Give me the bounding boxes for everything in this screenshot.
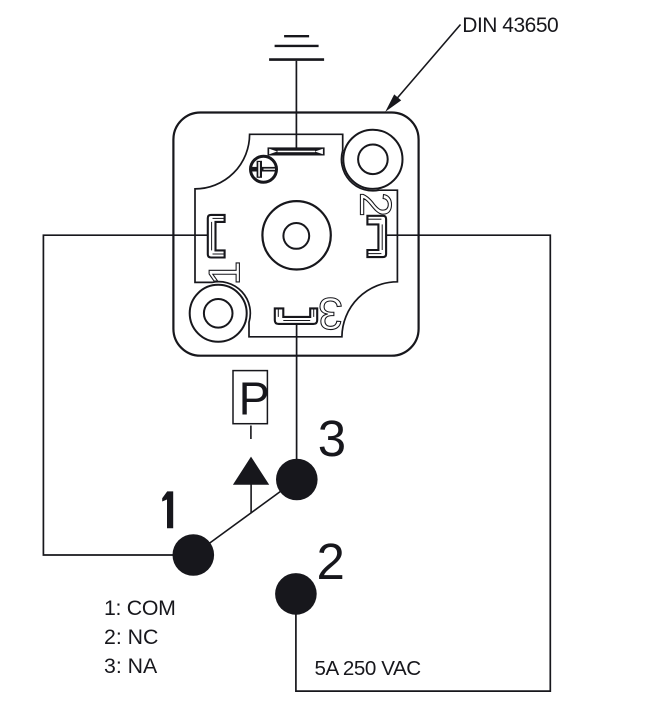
digit 1 (connector): [209, 263, 239, 282]
svg-text:3: NA: 3: NA: [104, 654, 158, 678]
P box: [233, 371, 267, 424]
ground: [269, 36, 324, 59]
terminal 1 bracket: [208, 215, 225, 258]
connector outer body: [173, 113, 418, 356]
mounting hole bottom-left: [190, 285, 247, 342]
wire ground stem: [295, 61, 297, 149]
node 2: [275, 573, 317, 615]
svg-text:3: 3: [318, 410, 346, 467]
svg-text:DIN 43650: DIN 43650: [462, 14, 558, 37]
connector inner contour: [195, 134, 397, 336]
central boss: [262, 201, 330, 269]
mounting hole top-right: [343, 130, 402, 189]
svg-text:2: NC: 2: NC: [104, 625, 158, 649]
actuator stem: [250, 484, 252, 513]
leader arrow: [385, 25, 460, 112]
wire terminal3 to node 3: [296, 324, 298, 480]
digit 3 (connector): [320, 298, 341, 330]
actuator triangle: [233, 457, 269, 485]
svg-text:1: COM: 1: COM: [104, 596, 176, 620]
dashed actuator line: [250, 426, 252, 457]
wire left: [43, 235, 207, 555]
terminal 2 bracket: [367, 216, 386, 257]
central hole: [283, 223, 309, 249]
switch lever: [193, 480, 296, 556]
earth screw: [250, 156, 277, 182]
node 1: [173, 534, 215, 576]
node 3: [276, 459, 318, 501]
svg-text:P: P: [239, 372, 270, 424]
wire right: [296, 235, 550, 691]
svg-text:5A 250 VAC: 5A 250 VAC: [315, 657, 422, 680]
label 1: [162, 491, 173, 528]
digit 2 (connector): [360, 194, 391, 214]
terminal 3 bracket: [275, 308, 317, 324]
earth blade: [268, 147, 325, 155]
svg-text:2: 2: [317, 533, 345, 590]
